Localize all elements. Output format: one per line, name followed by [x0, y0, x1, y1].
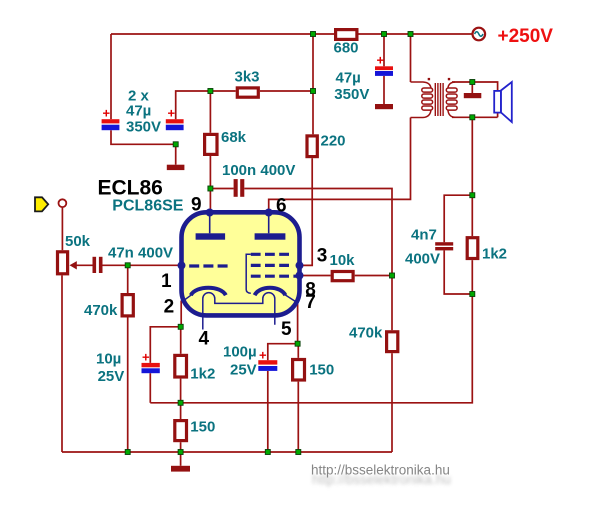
wire 470k input stub top	[127, 265, 129, 293]
svg-text:1k2: 1k2	[482, 246, 507, 263]
tube ECL86 envelope	[182, 212, 300, 315]
svg-text:6: 6	[276, 196, 287, 217]
tube pentode anode plate	[255, 233, 286, 239]
wire 150 pentode stubs	[297, 344, 299, 452]
node junction secondary top	[470, 80, 475, 85]
node junction feedback top	[470, 193, 475, 198]
wire 1k2 feedback stubs	[471, 195, 473, 294]
potentiometer 50k wiper	[70, 261, 77, 269]
svg-text:25V: 25V	[230, 362, 257, 379]
node junction bus 470k input	[125, 450, 130, 455]
svg-text:9: 9	[191, 195, 202, 216]
wire 4n7 branch bottom	[444, 250, 472, 294]
ground secondary	[464, 93, 482, 98]
resistor 470k input	[122, 295, 133, 316]
svg-text:4n7: 4n7	[411, 227, 437, 244]
wire pin 6 to transformer primary bottom	[269, 118, 411, 213]
resistor 150 triode	[175, 421, 187, 441]
node junction bus 100u	[265, 450, 270, 455]
speaker	[494, 82, 512, 122]
svg-text:47µ: 47µ	[126, 103, 151, 120]
resistor 470k grid2	[387, 332, 398, 352]
tube pentode grid g2	[251, 253, 289, 256]
svg-text:+: +	[168, 106, 176, 121]
wire 47n to pin 1	[103, 264, 182, 266]
resistor 150 pentode	[293, 360, 305, 381]
svg-text:1k2: 1k2	[190, 366, 215, 383]
tube heater filament pins 4 5	[203, 293, 275, 330]
wire 68k top stub	[209, 91, 211, 133]
svg-text:470k: 470k	[84, 302, 118, 319]
resistor 1k2 cathode	[175, 355, 187, 377]
node junction bus 150	[178, 450, 183, 455]
tube triode cathode	[191, 288, 226, 296]
capacitor 47u 350V screen	[375, 66, 393, 76]
svg-text:350V: 350V	[126, 119, 161, 136]
resistor 10k	[332, 272, 353, 281]
wire top B+ rail	[111, 33, 472, 35]
wire ground bus	[62, 451, 392, 453]
node junction filter ground	[173, 142, 178, 147]
wire 100n left	[210, 188, 233, 190]
svg-text:+250V: +250V	[498, 26, 554, 47]
svg-text:http://bsselektronika.hu: http://bsselektronika.hu	[311, 463, 450, 478]
wire cathode node to 10u top	[150, 327, 180, 363]
wire 47u top stub	[383, 34, 385, 66]
node junction rail transformer	[408, 32, 413, 37]
input arrow	[35, 197, 48, 211]
supply terminal +250V	[473, 28, 486, 41]
node junction rail 3k3	[311, 32, 316, 37]
svg-text:PCL86SE: PCL86SE	[112, 198, 183, 215]
resistor 3k3	[237, 88, 258, 97]
transformer phase dot primary	[428, 78, 430, 80]
svg-text:400V: 400V	[405, 251, 440, 268]
wire 470k input bottom to bus	[127, 318, 129, 453]
svg-text:4: 4	[199, 329, 210, 350]
svg-text:50k: 50k	[65, 233, 91, 250]
wire pot bottom to bus	[61, 275, 63, 452]
resistor 1k2 feedback	[467, 238, 478, 259]
node junction rail 47u	[382, 32, 387, 37]
wire 470k bottom to bus	[391, 353, 393, 452]
svg-text:10k: 10k	[330, 252, 356, 269]
svg-text:350V: 350V	[334, 86, 369, 103]
svg-text:47µ: 47µ	[336, 70, 361, 87]
pin 1 dot	[178, 261, 186, 269]
svg-text:150: 150	[309, 362, 334, 379]
node junction cathode feedback	[178, 400, 183, 405]
svg-text:+: +	[142, 350, 150, 365]
tube grid connector lead	[246, 254, 251, 293]
wire 10u bottom riser	[149, 373, 151, 403]
svg-text:220: 220	[321, 133, 346, 150]
input terminal circle	[59, 199, 67, 207]
wire 100n right down to 10k node	[244, 189, 392, 276]
wire secondary bottom drop	[471, 117, 473, 195]
svg-text:100µ: 100µ	[223, 344, 257, 361]
capacitor C2 47u 350V	[166, 119, 184, 130]
node junction 68k bottom pin 9	[208, 186, 213, 191]
svg-text:150: 150	[190, 419, 215, 436]
transformer primary winding	[411, 82, 433, 118]
wire cap C2 top to 3k3 row	[176, 91, 236, 119]
pin 3 dot	[296, 261, 304, 269]
wire 150 bottom to bus	[180, 442, 182, 452]
wire 4n7 branch top	[444, 195, 472, 242]
wire secondary bottom to speaker	[452, 116, 498, 118]
node junction 68k top	[208, 89, 213, 94]
wire 100u bottom to bus	[267, 371, 269, 452]
svg-text:2: 2	[164, 297, 175, 318]
wire input jack to pot	[61, 207, 63, 250]
wire pin 2 to cathode node	[180, 301, 182, 327]
wire 220 bottom to pin 3	[300, 158, 313, 265]
ground 47u	[375, 104, 393, 109]
tube pentode grid g3	[251, 275, 300, 278]
capacitor 47n 400V	[93, 257, 103, 273]
pin 9 dot	[206, 209, 214, 217]
node junction 10k 470k	[390, 273, 395, 278]
svg-text:+: +	[103, 106, 111, 121]
svg-text:68k: 68k	[221, 129, 247, 146]
wire cathode node to 1k2	[180, 327, 182, 354]
wire 1k2 cathode bottom stub	[180, 379, 182, 403]
wire 10k node to 470k top	[391, 276, 393, 331]
resistor 68k	[205, 134, 217, 154]
wire ground stub filter caps	[175, 144, 177, 164]
node junction cathode pentode	[295, 341, 300, 346]
tube pentode cathode	[255, 288, 286, 296]
wire cap C1 bottom to ground node	[111, 130, 176, 144]
svg-text:7: 7	[305, 292, 316, 313]
pin 8 dot	[296, 272, 304, 280]
node junction secondary bottom	[470, 115, 475, 120]
resistor 220	[307, 136, 317, 157]
tube pentode anode lead pin 6	[268, 214, 270, 233]
svg-text:5: 5	[281, 319, 292, 340]
svg-text:100n 400V: 100n 400V	[222, 162, 295, 179]
wire left drop to filter caps	[110, 34, 112, 119]
wire pentode node to 100u	[268, 344, 298, 361]
wire vertical x313 rail to 220	[312, 34, 314, 134]
transformer core	[435, 83, 443, 116]
transformer secondary winding	[446, 82, 457, 117]
svg-text:10µ: 10µ	[96, 351, 121, 368]
wire 68k bottom to pin 9	[209, 156, 211, 213]
node junction grid 1	[125, 263, 130, 268]
svg-text:3: 3	[317, 246, 328, 267]
svg-text:25V: 25V	[98, 368, 125, 385]
node junction 3k3 right	[311, 89, 316, 94]
pin 6 dot	[265, 209, 273, 217]
svg-text:470k: 470k	[349, 325, 383, 342]
wire rail to primary top	[410, 34, 412, 82]
capacitor C1 47u 350V	[102, 119, 120, 130]
tube triode anode plate	[196, 233, 226, 239]
wire feedback long line to cathode node	[150, 294, 472, 403]
wire ground stub secondary	[471, 82, 473, 93]
tube triode anode lead pin 9	[209, 214, 211, 233]
wire secondary top to speaker	[452, 82, 498, 117]
node junction cathode triode	[178, 324, 183, 329]
svg-text:3k3: 3k3	[235, 69, 260, 86]
svg-text:47n 400V: 47n 400V	[108, 245, 173, 262]
node junction bus 150 pentode	[296, 450, 301, 455]
resistor 680	[336, 30, 357, 40]
svg-text:1: 1	[161, 271, 172, 292]
tube cathode corner stub right	[285, 295, 296, 302]
capacitor 100n 400V	[234, 179, 245, 197]
wire 150 top stub	[180, 403, 182, 419]
ground filter caps	[167, 165, 185, 170]
svg-text:+: +	[259, 348, 267, 363]
capacitor 100u 25V	[258, 360, 277, 371]
tube cathode corner stub left	[183, 295, 192, 301]
wire ground stub bus	[180, 452, 182, 466]
svg-text:ECL86: ECL86	[98, 177, 163, 200]
wire 47u bottom to ground	[383, 76, 385, 104]
wire pot wiper to 47n	[76, 264, 93, 266]
tube pentode grid g1	[251, 264, 289, 267]
transformer phase dot secondary	[448, 78, 450, 80]
wire 10k right to node	[355, 275, 392, 277]
node junction feedback bottom	[470, 292, 475, 297]
capacitor 10u 25V	[142, 363, 160, 373]
wire 3k3 right to node	[260, 90, 313, 92]
svg-text:+: +	[377, 53, 385, 68]
wire pentode cathode drop	[297, 302, 299, 344]
svg-text:680: 680	[334, 40, 359, 57]
ground bus	[171, 466, 190, 472]
capacitor 4n7 400V	[435, 242, 453, 250]
potentiometer 50k body	[58, 252, 68, 274]
wire pin 8 to 10k	[300, 275, 331, 277]
tube triode grid	[189, 264, 229, 267]
